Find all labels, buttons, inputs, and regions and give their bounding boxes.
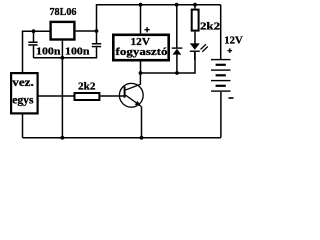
svg-text:78L06: 78L06: [50, 6, 77, 18]
wire: 78L06 ground pin: [61, 41, 63, 58]
resistor R1 2k2 (base): [75, 93, 100, 100]
svg-text:2k2: 2k2: [200, 20, 221, 32]
wire: 78L06 output to node A: [76, 30, 97, 32]
regulator U1 78L06 box: [51, 22, 75, 40]
svg-text:fogyasztó: fogyasztó: [116, 46, 169, 58]
LED light rays: [201, 44, 208, 52]
label - (battery): [229, 97, 234, 99]
wire: node A up to +12V top rail: [96, 4, 98, 31]
wire: load top pin: [140, 5, 142, 34]
capacitor C1 100n left: [28, 31, 37, 58]
svg-text:vez.: vez.: [12, 75, 34, 89]
node: diode anode junction dot: [175, 71, 179, 75]
wire: bottom ground rail: [23, 137, 221, 139]
wire: ground rail under capacitors: [34, 57, 97, 59]
control unit box vez.egys: [11, 73, 37, 113]
wire: base drive from control unit to resistor: [38, 95, 74, 97]
wire: load bottom pin to collector node: [140, 62, 142, 74]
wire: control unit bottom pin to ground rail: [22, 115, 24, 138]
node A: regulator output junction dot: [95, 29, 99, 33]
wire: resistor to transistor base: [100, 95, 124, 97]
label + (battery): [228, 48, 233, 53]
wire: collector node horizontal to LED branch: [141, 52, 196, 73]
svg-text:100n: 100n: [36, 45, 61, 57]
transistor Q1 NPN: [119, 83, 143, 107]
wire: top rail corner down to battery plus: [220, 5, 222, 60]
svg-text:12V: 12V: [224, 35, 243, 47]
transistor emitter arrowhead: [135, 101, 141, 107]
node: resistor R2 top pin dot: [193, 3, 197, 7]
wire: emitter down to ground rail: [141, 106, 143, 137]
svg-text:100n: 100n: [65, 45, 90, 57]
node: load top pin dot: [139, 3, 143, 7]
node: C1 top junction dot: [32, 29, 36, 33]
LED D2: [190, 43, 200, 60]
svg-text:egys: egys: [12, 92, 34, 106]
svg-text:2k2: 2k2: [78, 80, 96, 92]
node: diode top pin dot: [175, 3, 179, 7]
load box 12V fogyaszto: [113, 35, 168, 60]
battery B1 12V: [211, 59, 231, 138]
wire: +12V top rail: [97, 4, 221, 6]
label + at load: [145, 27, 150, 32]
node: ground rail dot at emitter: [140, 136, 144, 140]
wire: top-left corner from left rail to regulator input: [23, 31, 50, 72]
node: ground rail dot at main ground: [61, 136, 65, 140]
node: ground rail junction dot: [61, 56, 65, 60]
diode D1 flyback: [172, 5, 183, 73]
wire: main ground vertical to bottom rail: [61, 58, 63, 138]
resistor R2 2k2 (LED series): [192, 5, 199, 44]
capacitor C2 100n right: [92, 31, 101, 59]
node: collector node dot: [139, 71, 143, 75]
wire: collector drop from node to transistor: [139, 73, 141, 85]
